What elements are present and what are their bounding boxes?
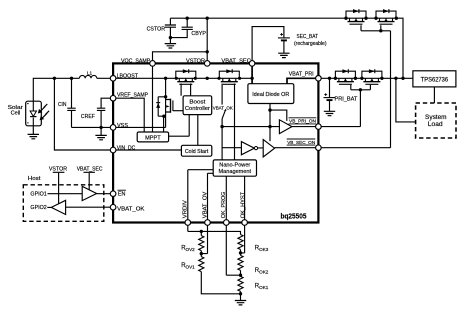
svg-text:CSTOR: CSTOR [147, 27, 166, 33]
svg-text:ROK1: ROK1 [255, 284, 269, 290]
svg-text:Cold Start: Cold Start [185, 149, 209, 155]
svg-text:L1: L1 [87, 71, 93, 76]
svg-text:GPIO1: GPIO1 [30, 191, 46, 197]
svg-text:Host: Host [28, 176, 41, 182]
svg-text:VRDIV: VRDIV [183, 200, 189, 218]
svg-text:VOC_SAMP: VOC_SAMP [121, 58, 151, 64]
svg-text:VBAT_OK: VBAT_OK [117, 206, 145, 212]
svg-text:Nano-Power: Nano-Power [219, 162, 250, 168]
svg-text:VBAT_OK: VBAT_OK [213, 105, 233, 110]
svg-text:Boost: Boost [189, 99, 206, 105]
svg-text:OK_HYST: OK_HYST [241, 191, 247, 218]
svg-text:ROK3: ROK3 [255, 246, 269, 252]
svg-text:VB_PRI_ON: VB_PRI_ON [289, 119, 316, 124]
svg-text:CBYP: CBYP [191, 31, 206, 37]
svg-text:CIN: CIN [58, 102, 67, 108]
svg-text:SEC_BAT: SEC_BAT [297, 34, 319, 40]
svg-text:ROV1: ROV1 [181, 263, 195, 269]
svg-text:Load: Load [428, 121, 443, 128]
svg-text:VB_SEC_ON: VB_SEC_ON [287, 140, 315, 145]
svg-text:MPPT: MPPT [145, 136, 161, 142]
svg-text:VBAT_OV: VBAT_OV [202, 191, 208, 218]
svg-text:Cell: Cell [11, 110, 21, 116]
svg-text:Ideal Diode OR: Ideal Diode OR [252, 92, 289, 98]
svg-text:ROK2: ROK2 [255, 268, 269, 274]
svg-text:VBAT_PRI: VBAT_PRI [289, 71, 314, 77]
svg-text:TPS62736: TPS62736 [421, 77, 449, 83]
svg-text:LBOOST: LBOOST [117, 73, 139, 79]
svg-text:OK_PROG: OK_PROG [221, 192, 227, 219]
svg-text:VIN_DC: VIN_DC [117, 146, 136, 152]
svg-text:Management: Management [219, 169, 252, 175]
svg-text:VSTOR: VSTOR [186, 58, 205, 64]
svg-text:GPIO2: GPIO2 [30, 205, 46, 211]
svg-text:VREF_SAMP: VREF_SAMP [117, 92, 148, 98]
svg-text:bq25505: bq25505 [281, 213, 307, 220]
svg-text:(rechargeable): (rechargeable) [294, 41, 327, 47]
svg-text:VSTOR: VSTOR [49, 166, 67, 172]
svg-text:ROV2: ROV2 [181, 246, 195, 252]
svg-text:CREF: CREF [81, 114, 96, 120]
svg-text:VSS: VSS [117, 123, 128, 129]
svg-text:VBAT_SEC: VBAT_SEC [221, 58, 251, 64]
svg-text:Controller: Controller [185, 106, 210, 112]
svg-text:EN: EN [118, 192, 126, 198]
svg-text:VBAT_SEC: VBAT_SEC [77, 166, 103, 172]
svg-text:PRI_BAT: PRI_BAT [335, 96, 358, 102]
